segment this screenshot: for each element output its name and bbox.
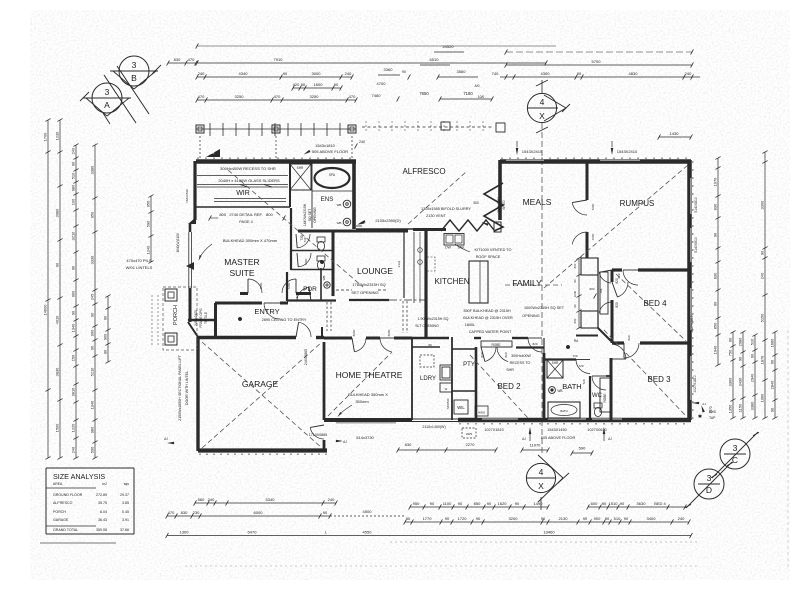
svg-text:90: 90	[283, 71, 288, 76]
ens spa	[312, 163, 353, 228]
svg-text:90: 90	[624, 516, 629, 521]
svg-text:5150: 5150	[760, 313, 765, 322]
wall pdr right	[320, 268, 322, 301]
svg-text:720F: 720F	[287, 282, 291, 289]
svg-text:3980: 3980	[55, 208, 60, 217]
wall entry left	[214, 303, 217, 337]
wall bed2/bath divider	[543, 338, 545, 420]
dim top-left row 470/3250	[196, 94, 358, 102]
svg-text:3810: 3810	[71, 387, 76, 396]
svg-text:RECESS TO: RECESS TO	[510, 361, 531, 365]
svg-text:13460: 13460	[543, 529, 555, 534]
porch outline	[152, 287, 197, 350]
room label hws box	[475, 406, 488, 416]
svg-text:150: 150	[71, 354, 76, 361]
hws unit outside	[462, 428, 476, 438]
svg-text:BED 2: BED 2	[497, 382, 521, 391]
svg-text:240: 240	[71, 446, 76, 453]
svg-text:1340: 1340	[71, 323, 76, 332]
bath shower	[547, 360, 563, 378]
svg-text:SIZE ANALYSIS: SIZE ANALYSIS	[53, 472, 105, 481]
svg-text:MEALS: MEALS	[523, 197, 552, 207]
svg-text:B: B	[131, 73, 137, 83]
svg-text:AJ: AJ	[343, 440, 347, 444]
wall garage left	[196, 337, 199, 451]
svg-text:1240: 1240	[146, 245, 151, 254]
dim left chain 4	[90, 144, 98, 460]
svg-text:1060: 1060	[760, 393, 765, 402]
svg-text:850: 850	[474, 501, 481, 506]
svg-text:90: 90	[602, 501, 607, 506]
svg-text:3630: 3630	[637, 501, 647, 506]
wall lounge bottom set opening	[336, 290, 425, 300]
svg-text:3430: 3430	[738, 377, 743, 386]
wall garage right	[323, 342, 326, 420]
wall bottom home theatre	[324, 418, 412, 422]
svg-text:✱: ✱	[698, 414, 702, 420]
svg-text:24520: 24520	[442, 44, 454, 49]
svg-text:1770: 1770	[423, 516, 433, 521]
svg-text:90: 90	[402, 70, 406, 74]
svg-text:470: 470	[349, 94, 356, 99]
svg-text:BULKHEAD @ 2315H OVER: BULKHEAD @ 2315H OVER	[463, 316, 513, 320]
wall pdr left	[286, 272, 288, 301]
dim right-bottom chain e	[770, 331, 778, 420]
svg-text:240: 240	[198, 71, 205, 76]
svg-text:14600: 14600	[43, 304, 48, 316]
note window 1543X2410 a	[516, 141, 543, 155]
svg-text:90: 90	[476, 516, 481, 521]
section marker circle 4/X top	[527, 80, 570, 133]
svg-text:1510: 1510	[609, 501, 619, 506]
note recess shr 2	[506, 354, 531, 372]
svg-text:560: 560	[198, 497, 205, 502]
family robes	[573, 257, 612, 341]
note window labels bottom	[484, 427, 612, 441]
wall pty bottom	[452, 390, 476, 392]
svg-text:PORCH: PORCH	[53, 510, 66, 514]
wall hallway bed2 top	[474, 338, 542, 352]
bed2 robe	[481, 341, 512, 362]
svg-text:2130: 2130	[559, 516, 569, 521]
svg-text:RUMPUS: RUMPUS	[620, 199, 655, 208]
svg-text:2131: 2131	[397, 260, 401, 267]
svg-text:240: 240	[71, 147, 76, 154]
svg-text:X: X	[539, 111, 545, 121]
wc toilets middle	[317, 237, 325, 270]
svg-text:1100: 1100	[443, 501, 452, 506]
svg-text:sqs: sqs	[124, 482, 130, 486]
svg-text:1027X1810: 1027X1810	[693, 375, 697, 392]
svg-text:6470: 6470	[248, 529, 258, 534]
bath wb	[549, 387, 563, 394]
svg-text:MASTER: MASTER	[224, 257, 259, 267]
svg-text:2980: 2980	[738, 337, 743, 346]
svg-text:WC: WC	[592, 393, 603, 399]
svg-text:4300: 4300	[541, 71, 551, 76]
svg-text:m2: m2	[102, 482, 107, 486]
svg-text:OPENING: OPENING	[522, 314, 540, 318]
note 240 tick	[355, 140, 365, 149]
svg-text:BATH: BATH	[560, 409, 567, 413]
svg-text:1150: 1150	[738, 403, 743, 412]
dim right-bottom chain a	[728, 331, 736, 420]
svg-text:WB: WB	[337, 221, 342, 225]
faint bottom dotted line 2	[185, 565, 700, 567]
wall wir bottom	[196, 206, 290, 208]
svg-text:1640(W)2100: 1640(W)2100	[176, 233, 180, 253]
svg-text:TAP: TAP	[709, 416, 716, 420]
section marker circle 3/A	[80, 83, 131, 124]
svg-text:WB: WB	[337, 203, 342, 207]
scan streak under table	[40, 542, 116, 544]
svg-text:FRAME OPG: FRAME OPG	[199, 308, 203, 328]
svg-text:SQ SET: SQ SET	[308, 209, 312, 221]
svg-text:ROBE: ROBE	[491, 343, 500, 347]
svg-text:900: 900	[103, 333, 108, 340]
wall wc divider 1	[291, 250, 332, 252]
svg-text:590: 590	[90, 446, 95, 453]
svg-text:3380: 3380	[750, 401, 755, 410]
wall master bottom with doors	[188, 279, 311, 320]
svg-text:470x470 PILS: 470x470 PILS	[126, 258, 151, 263]
section marker double diagonal	[104, 66, 149, 123]
svg-text:2106x2057: 2106x2057	[497, 197, 501, 213]
svg-text:830: 830	[713, 272, 718, 279]
wall bath top	[516, 348, 590, 374]
wall entry top stub	[280, 302, 288, 305]
svg-text:7480: 7480	[372, 93, 382, 98]
dim left chain 5 short	[103, 295, 111, 364]
wc toilet	[594, 403, 602, 417]
wall theatre top with doors	[324, 338, 449, 352]
svg-text:10/0: 10/0	[478, 95, 485, 99]
svg-text:1440Wx2315H: 1440Wx2315H	[303, 203, 307, 226]
svg-text:4830: 4830	[629, 71, 639, 76]
dashed bed4 diagonal	[616, 274, 686, 341]
alfresco bottom edge	[356, 221, 413, 229]
svg-text:90: 90	[515, 501, 520, 506]
lounge right wall	[397, 232, 407, 333]
svg-text:90: 90	[445, 516, 450, 521]
dashed ridge alfresco	[408, 172, 466, 224]
svg-text:240: 240	[685, 71, 692, 76]
svg-text:1300: 1300	[180, 529, 190, 534]
svg-text:LOUNGE: LOUNGE	[357, 266, 393, 276]
svg-text:AJ: AJ	[164, 437, 168, 441]
dim top-left mini row (830/470)	[167, 57, 198, 65]
aj arrow right wall	[692, 402, 706, 406]
svg-text:90: 90	[573, 279, 577, 283]
svg-text:950: 950	[413, 501, 420, 506]
svg-text:2105x2390(D): 2105x2390(D)	[375, 218, 401, 223]
svg-text:90: 90	[577, 71, 582, 76]
note pils lintels	[126, 258, 153, 270]
dashed garage X 1	[202, 342, 322, 448]
svg-text:240: 240	[328, 497, 335, 502]
wall wc divider 2	[291, 269, 332, 271]
svg-text:420: 420	[293, 82, 300, 87]
svg-text:SHR: SHR	[297, 166, 304, 170]
wall bed4/bed3 divider	[612, 343, 690, 358]
kitchen island bench	[469, 261, 488, 303]
svg-text:DW: DW	[445, 246, 451, 250]
svg-text:3250: 3250	[310, 94, 320, 99]
svg-text:1220: 1220	[71, 423, 76, 432]
dim 11070/590	[521, 443, 594, 456]
svg-text:720F: 720F	[304, 258, 308, 265]
svg-text:5340: 5340	[266, 497, 276, 502]
svg-text:2270: 2270	[466, 442, 476, 447]
svg-text:HOME THEATRE: HOME THEATRE	[336, 370, 403, 380]
svg-text:90: 90	[583, 516, 588, 521]
svg-text:90: 90	[406, 516, 411, 521]
svg-text:HWS: HWS	[466, 432, 473, 436]
note bulkhead kitchen	[463, 309, 513, 334]
svg-text:90: 90	[605, 516, 610, 521]
garage door 1710X0885	[310, 425, 324, 451]
svg-text:820F: 820F	[352, 329, 356, 336]
svg-text:W: W	[445, 387, 448, 391]
svg-text:3360: 3360	[384, 67, 394, 72]
faint right dashed line	[787, 330, 789, 570]
dim left chain 2	[55, 119, 63, 460]
svg-text:1940: 1940	[713, 345, 718, 354]
wall meals-rumpus top	[500, 158, 691, 162]
note lounge opening	[351, 282, 385, 295]
svg-text:5210: 5210	[90, 367, 95, 376]
svg-text:240: 240	[678, 516, 685, 521]
svg-text:SPA: SPA	[329, 173, 336, 177]
svg-text:950: 950	[90, 211, 95, 218]
svg-text:3300: 3300	[728, 377, 733, 386]
svg-text:1.900Wx2315H SQ: 1.900Wx2315H SQ	[418, 317, 449, 321]
dashed bed3 diagonal	[604, 330, 686, 416]
svg-text:W/01 LINTELS: W/01 LINTELS	[126, 265, 153, 270]
dim porch chain	[146, 195, 154, 264]
svg-text:900: 900	[71, 290, 76, 297]
svg-text:240: 240	[359, 140, 365, 144]
svg-text:C: C	[732, 455, 738, 465]
svg-text:3: 3	[733, 443, 738, 453]
svg-text:5140X810: 5140X810	[694, 197, 698, 213]
dim top-left 7910	[196, 57, 548, 65]
wall ldry/pty divider	[451, 337, 453, 420]
svg-text:11070: 11070	[530, 443, 542, 448]
svg-text:830: 830	[713, 203, 718, 210]
bath tub	[548, 402, 580, 418]
svg-text:1430: 1430	[670, 131, 680, 136]
svg-text:WIL: WIL	[457, 405, 465, 410]
svg-text:1070: 1070	[709, 406, 713, 413]
svg-text:SET OPENING: SET OPENING	[351, 290, 378, 295]
svg-text:830: 830	[174, 57, 181, 62]
svg-text:FAMILY: FAMILY	[512, 278, 542, 288]
svg-text:900: 900	[90, 329, 95, 336]
dashed garage X 2	[202, 342, 322, 448]
svg-text:KIT1000 VENTED TO: KIT1000 VENTED TO	[475, 248, 512, 252]
svg-text:600: 600	[589, 287, 594, 291]
svg-text:7650: 7650	[419, 91, 429, 96]
svg-text:6000: 6000	[254, 510, 264, 515]
svg-text:1027X1810: 1027X1810	[690, 315, 694, 332]
svg-text:HWS: HWS	[478, 411, 485, 415]
svg-text:4: 4	[540, 97, 545, 107]
dashed ridge family horizontal	[505, 284, 562, 286]
svg-text:830: 830	[181, 510, 188, 515]
dim bottom overall line	[166, 529, 693, 538]
svg-text:BED 4: BED 4	[654, 501, 666, 506]
svg-text:0.45: 0.45	[122, 510, 129, 514]
kitchen top bench	[413, 230, 465, 250]
svg-text:1800L: 1800L	[465, 323, 476, 327]
svg-text:BULKHEAD 350mm X: BULKHEAD 350mm X	[348, 392, 388, 397]
dim labels 7650/7180	[419, 84, 493, 102]
svg-text:240: 240	[208, 497, 215, 502]
wall pty right	[475, 347, 478, 420]
svg-text:3210: 3210	[71, 231, 76, 240]
svg-text:AREA: AREA	[53, 482, 63, 486]
svg-text:1543X1450: 1543X1450	[547, 428, 566, 432]
svg-text:ENTRY: ENTRY	[254, 307, 279, 316]
svg-text:820: 820	[615, 302, 619, 308]
svg-text:3380: 3380	[90, 165, 95, 174]
svg-text:X: X	[538, 481, 544, 491]
svg-text:ROOF SPACE: ROOF SPACE	[476, 255, 501, 259]
svg-text:514x3730: 514x3730	[356, 435, 374, 440]
bed3 robe	[600, 378, 612, 412]
svg-text:600: 600	[591, 501, 598, 506]
wall pdr-theatre link	[321, 327, 323, 339]
note robe labels family	[615, 278, 619, 308]
dim top-right row 4300/4830	[492, 71, 700, 79]
svg-text:90: 90	[323, 510, 328, 515]
pdr basin	[322, 276, 330, 289]
svg-text:3400: 3400	[647, 516, 657, 521]
ens shr box	[290, 164, 311, 190]
svg-text:7180: 7180	[463, 91, 473, 96]
svg-text:4: 4	[539, 467, 544, 477]
note exb tap	[698, 405, 717, 420]
svg-text:BED 3: BED 3	[647, 375, 671, 384]
dim right chain 1	[713, 157, 721, 367]
svg-text:230: 230	[193, 510, 200, 515]
svg-text:WB: WB	[322, 276, 326, 281]
wall theatre right / ldry	[411, 338, 413, 420]
svg-text:PDR: PDR	[303, 286, 317, 293]
svg-text:4550: 4550	[363, 529, 373, 534]
svg-text:SLT OPENING: SLT OPENING	[415, 324, 439, 328]
svg-text:1700: 1700	[43, 132, 48, 141]
note slt opening	[415, 317, 449, 328]
svg-text:3: 3	[132, 60, 137, 70]
section cut line vertical	[541, 123, 543, 456]
svg-text:850: 850	[713, 322, 718, 329]
faint bottom dotted line 1	[390, 541, 700, 543]
wall corridor top	[412, 347, 476, 349]
svg-text:AJ: AJ	[608, 437, 612, 441]
svg-text:OPENING: OPENING	[313, 207, 317, 223]
svg-text:505 ABOVE FLOOR: 505 ABOVE FLOOR	[312, 149, 348, 154]
svg-text:350mm: 350mm	[355, 399, 369, 404]
ens wb basins	[337, 200, 351, 226]
bed4 robe	[600, 272, 608, 314]
svg-text:980: 980	[90, 426, 95, 433]
black dot hall	[566, 345, 570, 349]
dashed bed2 diagonal	[470, 355, 528, 418]
svg-text:1870: 1870	[760, 355, 765, 364]
svg-text:820F: 820F	[387, 329, 391, 336]
svg-text:35.75: 35.75	[98, 501, 107, 505]
svg-text:2130 VENT: 2130 VENT	[426, 214, 446, 218]
svg-text:300: 300	[473, 201, 479, 205]
section marker circle 3/B	[110, 56, 161, 89]
svg-text:2150Wx4850H SECTIONAL PANEL LI: 2150Wx4850H SECTIONAL PANEL LIFT	[178, 354, 182, 421]
svg-text:980: 980	[71, 184, 76, 191]
dim right chain 2	[760, 151, 768, 420]
wir glass sliders	[197, 176, 288, 202]
room label MASTER SUITE	[224, 257, 259, 278]
note wb wedge	[206, 149, 220, 157]
svg-text:900: 900	[594, 516, 601, 521]
dashed ridge master	[228, 170, 363, 287]
svg-text:A/0: A/0	[474, 84, 479, 88]
size analysis table	[46, 468, 134, 534]
dim bottom-left row 6000	[166, 510, 332, 518]
dim bottom-left row 560/5340	[194, 497, 338, 505]
svg-text:GARAGE: GARAGE	[242, 379, 279, 389]
svg-text:90: 90	[541, 516, 546, 521]
svg-text:3.91: 3.91	[122, 518, 129, 522]
dim bottom-mid row a	[409, 501, 550, 509]
black dot entry	[238, 317, 242, 321]
svg-text:820: 820	[617, 273, 621, 278]
svg-text:29.37: 29.37	[120, 493, 129, 497]
svg-text:1843X510: 1843X510	[185, 189, 189, 203]
dim top-left row 420/1600	[292, 82, 343, 90]
svg-text:KITCHEN: KITCHEN	[434, 277, 469, 286]
svg-text:1230: 1230	[55, 131, 60, 140]
svg-text:36.43: 36.43	[98, 518, 107, 522]
svg-text:90: 90	[430, 501, 435, 506]
section marker circle 4/X bottom	[526, 455, 569, 510]
svg-text:3830: 3830	[55, 367, 60, 376]
svg-text:3300: 3300	[760, 200, 765, 209]
svg-text:950: 950	[146, 200, 151, 207]
note aj garage	[164, 437, 347, 444]
svg-text:BULKHEAD 300mm X 470mm: BULKHEAD 300mm X 470mm	[223, 238, 278, 243]
dim labels 24520/6510/3560	[402, 44, 478, 80]
dashed theatre diagonal	[328, 352, 392, 416]
section marker circle 3/C	[711, 432, 759, 478]
svg-text:2110x1450(W): 2110x1450(W)	[422, 425, 445, 429]
svg-text:1600: 1600	[314, 82, 324, 87]
wall ens/lounge top	[298, 230, 408, 233]
svg-text:800: 800	[573, 263, 577, 268]
svg-text:820: 820	[627, 335, 631, 340]
note bulkhead theatre	[337, 392, 388, 417]
svg-text:PAGE 4: PAGE 4	[239, 220, 252, 224]
svg-text:272.89: 272.89	[96, 493, 107, 497]
svg-text:510: 510	[750, 338, 755, 345]
wall master block top	[196, 159, 356, 164]
wall connector master-garage	[188, 322, 198, 337]
dim right-bottom chain c	[750, 334, 758, 420]
wall garage top with entry door	[198, 322, 324, 337]
note door labels misc	[259, 203, 631, 384]
pergola beams and posts	[196, 121, 505, 158]
svg-text:WB: WB	[210, 151, 215, 155]
